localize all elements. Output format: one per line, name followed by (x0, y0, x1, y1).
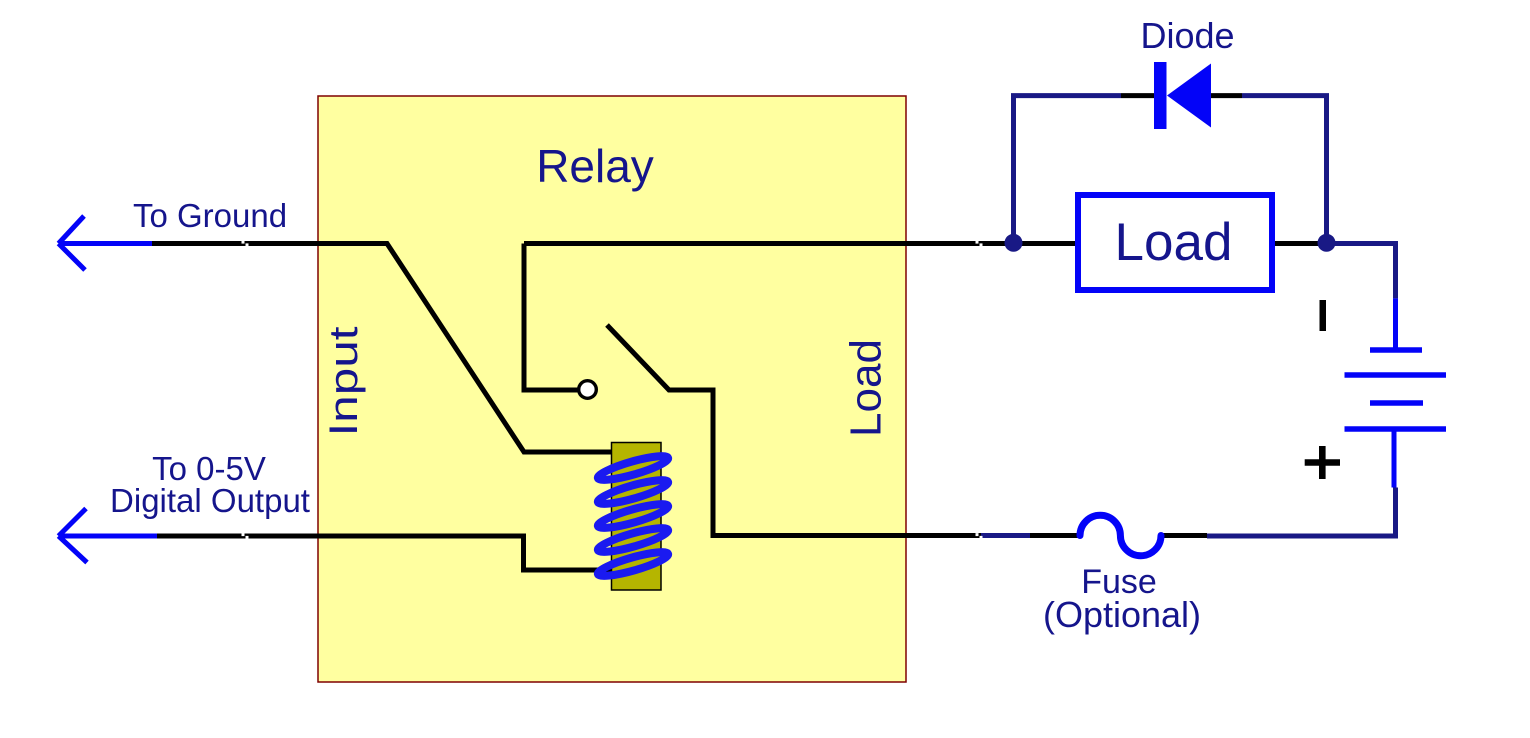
svg-text:(Optional): (Optional) (1043, 594, 1201, 635)
svg-text:Relay: Relay (536, 140, 654, 192)
svg-text:Load: Load (842, 339, 891, 437)
svg-text:Input: Input (322, 327, 366, 437)
svg-text:Diode: Diode (1140, 15, 1234, 56)
svg-text:Digital Output: Digital Output (110, 482, 310, 519)
svg-text:Load: Load (1115, 213, 1233, 272)
svg-text:To Ground: To Ground (133, 197, 287, 234)
